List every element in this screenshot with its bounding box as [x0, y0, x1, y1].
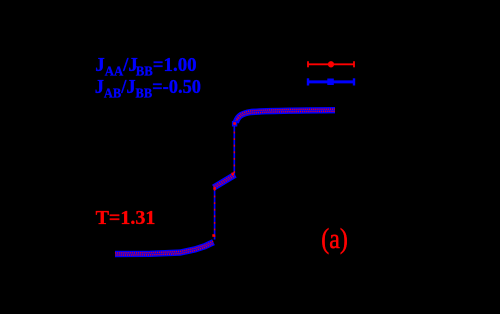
wire jump 2 — [233, 125, 235, 176]
svg-text:(a): (a) — [321, 222, 348, 255]
legend red errorbar — [308, 61, 354, 67]
wire upper plateau blue band — [236, 109, 335, 124]
legend blue square marker — [327, 79, 334, 86]
svg-text:T=1.31: T=1.31 — [96, 207, 156, 229]
label JAA/JBB=1.00 — [95, 55, 196, 79]
label (a) — [321, 222, 348, 255]
label JAB/JBB=-0.50 — [95, 76, 201, 100]
node blue point blob at jump2 top — [232, 121, 237, 127]
legend red circle marker — [328, 61, 334, 67]
wire middle plateau blue band — [214, 174, 235, 189]
node red corner dots — [212, 122, 236, 237]
wire jump 1 — [214, 188, 216, 240]
wire lower plateau blue band — [115, 241, 214, 255]
legend blue errorbar — [308, 78, 354, 85]
